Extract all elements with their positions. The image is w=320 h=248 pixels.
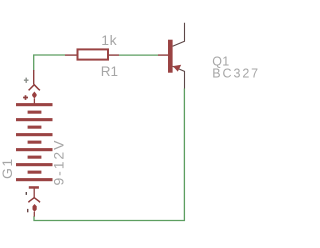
battery G1 long plate 1	[16, 103, 53, 106]
transistor Q1 base pin	[158, 54, 168, 56]
connector bottom male pin	[33, 204, 37, 212]
battery G1 long plate 2	[16, 118, 53, 121]
svg-text:9-12V: 9-12V	[51, 139, 67, 186]
battery G1 short plate 2	[28, 126, 42, 129]
battery G1 top stem	[33, 98, 35, 103]
svg-text:1k: 1k	[101, 32, 117, 48]
battery G1 long plate 3	[16, 133, 53, 136]
battery G1 long plate 5	[16, 163, 53, 166]
connector bottom female chevron	[28, 198, 40, 203]
battery G1 top male pin	[32, 92, 36, 99]
connector top plus label (gray)	[24, 78, 29, 83]
svg-text:G1: G1	[0, 157, 15, 179]
battery G1 long plate 4	[16, 148, 53, 151]
wire emitter down and bottom to battery	[34, 89, 184, 221]
battery G1 short plate 1	[28, 111, 42, 114]
battery G1 short plate 5	[28, 171, 42, 174]
battery G1 long plate 6	[16, 178, 53, 181]
transistor Q1 emitter	[173, 66, 185, 88]
connector bottom minus label (gray)	[25, 192, 27, 195]
battery G1 short plate 3	[28, 141, 42, 144]
connector top female chevron	[29, 85, 40, 91]
svg-text:R1: R1	[101, 64, 118, 79]
battery G1 bottom stem	[33, 189, 35, 198]
svg-text:BC327: BC327	[212, 67, 260, 81]
resistor R1 left pin	[65, 54, 77, 56]
transistor Q1 collector	[173, 23, 185, 47]
battery G1 minus label (maroon)	[27, 209, 29, 212]
battery G1 short plate 4	[28, 156, 42, 159]
resistor R1 right pin	[109, 54, 119, 56]
transistor Q1 emitter arrow	[173, 65, 181, 72]
battery G1 plus label (maroon)	[23, 95, 28, 100]
transistor Q1 base bar	[168, 40, 173, 73]
battery G1 bottom T bar	[29, 186, 39, 189]
connector top female pin	[33, 70, 35, 84]
resistor R1 body	[78, 49, 109, 59]
wire resistor to transistor base	[119, 54, 158, 56]
wire top from battery to resistor	[34, 55, 65, 71]
connector bottom male stem	[33, 212, 35, 217]
